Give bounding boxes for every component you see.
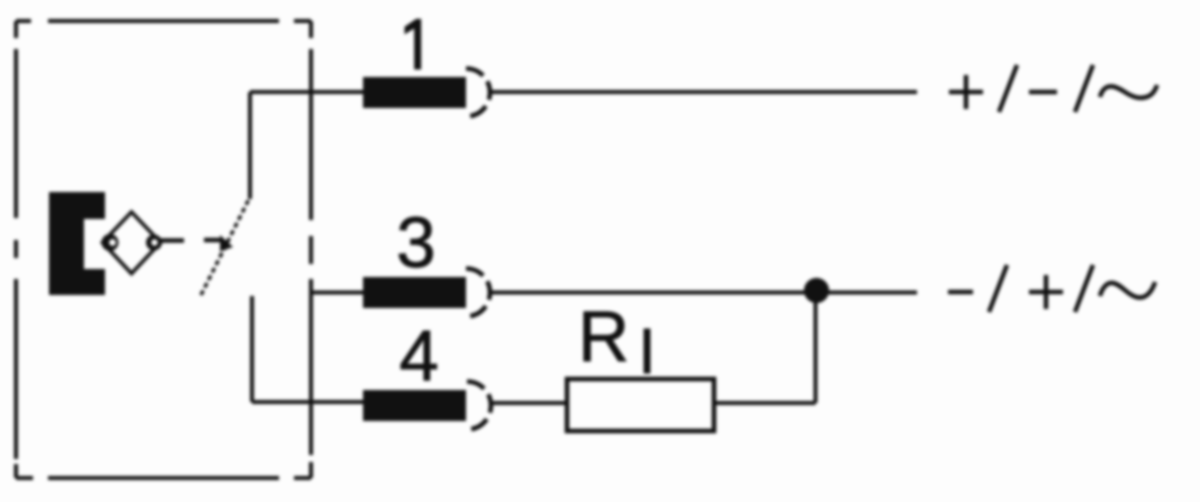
svg-text:I: I xyxy=(638,315,656,387)
terminal 1 connector arc xyxy=(466,69,490,117)
sensor diamond xyxy=(102,212,163,274)
wire top left (node to terminal 1) xyxy=(250,90,363,94)
junction dot xyxy=(804,278,829,303)
resistor RI body xyxy=(567,379,714,431)
wire terminal 4 to resistor xyxy=(491,401,565,405)
enclosure dashed border bottom side xyxy=(16,476,311,480)
svg-text:4: 4 xyxy=(399,317,439,396)
switch S1 arm xyxy=(201,199,249,295)
enclosure dashed border top side xyxy=(16,19,311,23)
enclosure dashed border left side xyxy=(14,21,18,478)
wire resistor to corner xyxy=(716,401,816,405)
resistor label RI xyxy=(578,298,656,387)
svg-text:3: 3 xyxy=(396,204,436,283)
net label -/+/~ xyxy=(948,265,1155,312)
svg-text:R: R xyxy=(578,298,629,377)
net label +/-/~ xyxy=(949,65,1157,112)
terminal 4 connector arc xyxy=(467,382,491,430)
wire top right to net label xyxy=(490,90,917,94)
terminal 1 pin xyxy=(363,77,466,108)
switch S1 upper lead xyxy=(248,92,252,199)
wire middle left (enclosure to terminal 3) xyxy=(311,291,363,295)
wire corner up to junction xyxy=(814,290,818,403)
enclosure dashed border right side xyxy=(309,21,313,478)
terminal 3 pin xyxy=(363,277,466,308)
terminal 4 pin xyxy=(363,390,466,421)
switch S1 lower lead xyxy=(250,296,254,402)
terminal 3 connector arc xyxy=(466,269,490,317)
pin label 1 xyxy=(405,19,421,69)
pin label 3 xyxy=(396,204,436,283)
wire bottom left (switch to terminal 4) xyxy=(252,400,363,404)
pin label 4 xyxy=(399,317,439,396)
magnet symbol (black bracket) xyxy=(49,192,105,295)
wire middle right to net label xyxy=(490,291,917,295)
actuator dashed link xyxy=(161,235,234,252)
